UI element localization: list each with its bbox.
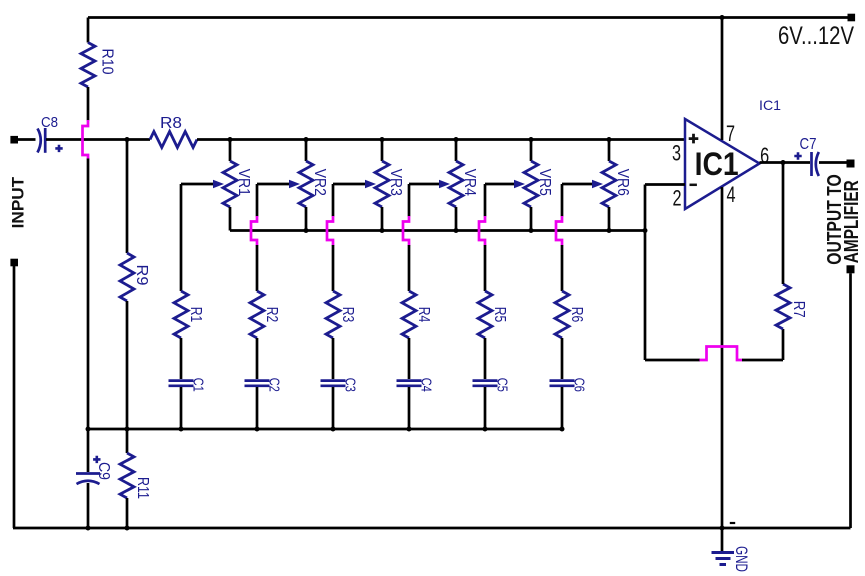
wire pin2 input — [645, 183, 685, 186]
potentiometer VR2 — [299, 161, 313, 207]
wire C6 to bias bus — [561, 387, 564, 429]
node R10/C9 bias junction — [86, 427, 91, 432]
node VR2 bottom junction — [304, 228, 309, 233]
wire pin2 to pot bus and feedback — [644, 185, 647, 361]
svg-text:VR3: VR3 — [387, 169, 404, 196]
wire R10 lower lead — [87, 87, 90, 121]
wire hop R4 chain over pot bus — [403, 216, 409, 246]
svg-text:R3: R3 — [339, 307, 356, 323]
node R9/R11 bias junction — [125, 427, 130, 432]
wire output ground drop — [849, 273, 852, 528]
node pot VR3 top junction — [380, 137, 385, 142]
resistor R11 — [126, 429, 129, 453]
wire C8 to node R9 — [46, 138, 127, 141]
capacitor C4 — [397, 379, 422, 382]
svg-text:GND: GND — [732, 546, 750, 572]
wire C5 to bias bus — [484, 387, 487, 429]
svg-text:4: 4 — [726, 183, 735, 208]
resistor R1 — [174, 291, 188, 338]
svg-text:2: 2 — [672, 186, 681, 211]
potentiometer VR4 — [449, 161, 463, 207]
svg-text:C1: C1 — [190, 378, 207, 392]
node pot VR2 top junction — [304, 137, 309, 142]
svg-text:R5: R5 — [491, 307, 508, 323]
svg-text:C6: C6 — [571, 378, 588, 392]
wire hop R5 chain over pot bus — [479, 216, 485, 246]
wire C3 to bias bus — [332, 387, 335, 429]
wire VR6 bottom lead — [608, 207, 611, 231]
wire feedback left segment — [645, 359, 700, 362]
wire VR5 wiper — [485, 183, 517, 186]
wire R4 to C4 — [408, 338, 411, 379]
node feedback junction on pot bus — [643, 228, 648, 233]
svg-text:IC1: IC1 — [759, 97, 781, 113]
wire VR5 bottom lead — [530, 207, 533, 231]
wire VR2 wiper — [257, 183, 292, 186]
wire R1 chain riser — [180, 184, 183, 291]
terminal output signal — [847, 160, 855, 168]
svg-text:3: 3 — [672, 141, 681, 166]
wire R5 chain riser upper — [484, 184, 487, 217]
node pot VR4 top junction — [454, 137, 459, 142]
terminal input signal — [10, 136, 18, 144]
potentiometer VR6 — [602, 161, 616, 207]
node C2 bias bus junction — [255, 427, 260, 432]
wire VR1 wiper — [181, 183, 216, 186]
node C1 bias bus junction — [179, 427, 184, 432]
node pin4 ground junction — [720, 526, 725, 531]
svg-text:R1: R1 — [187, 307, 204, 323]
capacitor C8 — [38, 129, 41, 153]
wire VR5 top lead — [530, 140, 533, 162]
svg-text:C5: C5 — [494, 378, 511, 392]
terminal output ground — [847, 265, 855, 273]
wire hop R6 chain over pot bus — [556, 216, 562, 246]
svg-text:6V...12V: 6V...12V — [778, 22, 854, 50]
wire VR2 bottom lead — [305, 207, 308, 231]
node supply/pin7 junction — [720, 15, 725, 20]
svg-text:R10: R10 — [99, 49, 116, 75]
node C6 bias bus junction — [560, 427, 565, 432]
svg-text:IC1: IC1 — [695, 146, 739, 182]
svg-text:C4: C4 — [418, 378, 435, 392]
op-amp minus input mark — [690, 184, 697, 187]
wire R4 chain riser upper — [408, 184, 411, 217]
resistor R8 — [150, 132, 197, 148]
node R11 ground junction — [125, 526, 130, 531]
wire top supply bus — [88, 16, 848, 19]
svg-text:C8: C8 — [41, 114, 58, 131]
wire R5 chain riser lower — [484, 245, 487, 291]
wire R3 to C3 — [332, 338, 335, 379]
wire C7 to output terminal — [819, 161, 847, 164]
wire R6 to C6 — [561, 338, 564, 379]
wire op-amp output — [760, 161, 811, 164]
potentiometer VR3 — [375, 161, 389, 207]
node output junction — [781, 160, 786, 165]
wire bias bus — [88, 428, 562, 431]
wire hop feedback over pin4 wire — [700, 347, 743, 361]
wire feedback right segment — [742, 359, 783, 362]
svg-text:R11: R11 — [134, 477, 151, 499]
node C3 bias bus junction — [331, 427, 336, 432]
svg-text:6: 6 — [760, 144, 769, 169]
capacitor C7 — [810, 152, 813, 176]
wire R3 chain riser upper — [332, 184, 335, 217]
ground symbol — [721, 528, 724, 551]
capacitor C9 — [87, 429, 90, 472]
resistor R7 — [782, 329, 785, 360]
wire R6 chain riser upper — [561, 184, 564, 217]
wire VR4 bottom lead — [455, 207, 458, 231]
svg-text:R2: R2 — [263, 307, 280, 323]
svg-text:R7: R7 — [790, 301, 807, 318]
svg-text:R6: R6 — [568, 307, 585, 323]
capacitor C2 — [245, 379, 270, 382]
svg-text:C7: C7 — [800, 136, 817, 153]
wire R5 to C5 — [484, 338, 487, 379]
wire R6 chain riser lower — [561, 245, 564, 291]
wire R1 to C1 — [180, 338, 183, 379]
potentiometer VR5 — [524, 161, 538, 207]
wire VR1 bottom lead — [229, 207, 232, 231]
svg-text:VR6: VR6 — [614, 169, 631, 196]
wire VR3 wiper — [333, 183, 368, 186]
resistor R10 — [87, 18, 90, 43]
wire C4 to bias bus — [408, 387, 411, 429]
svg-text:VR2: VR2 — [311, 169, 328, 196]
wire pin7 supply — [721, 18, 724, 141]
wire R2 chain riser lower — [256, 245, 259, 291]
wire R3 chain riser lower — [332, 245, 335, 291]
node VR4 bottom junction — [454, 228, 459, 233]
svg-text:VR1: VR1 — [235, 169, 252, 196]
minus mark near ground junction — [730, 522, 735, 524]
resistor R6 — [555, 291, 569, 338]
wire input ground drop — [13, 266, 16, 528]
wire R10 bottom to bias bus — [87, 159, 90, 430]
capacitor C3 — [321, 379, 346, 382]
wire C1 to bias bus — [180, 387, 183, 429]
resistor R3 — [326, 291, 340, 338]
resistor R9 — [126, 140, 129, 254]
wire input to C8 — [18, 138, 36, 141]
potentiometer VR1 — [223, 161, 237, 207]
terminal input ground — [10, 259, 18, 267]
wire pin4 to ground — [721, 187, 724, 528]
wire ground bus — [13, 527, 851, 530]
capacitor C6 — [550, 379, 575, 382]
node VR3 bottom junction — [380, 228, 385, 233]
op-amp U1 IC1 triangle — [685, 119, 760, 209]
wire VR2 top lead — [305, 140, 308, 162]
wire R2 to C2 — [256, 338, 259, 379]
resistor R4 — [402, 291, 416, 338]
node C8/R9/R8 junction — [125, 137, 130, 142]
node C5 bias bus junction — [483, 427, 488, 432]
wire C9 to ground bus — [87, 483, 90, 528]
svg-text:INPUT: INPUT — [8, 176, 27, 228]
wire VR4 top lead — [455, 140, 458, 162]
svg-text:AMPLIFIER: AMPLIFIER — [841, 180, 863, 263]
wire R2 chain riser upper — [256, 184, 259, 217]
wire R9 bottom to bias bus — [126, 301, 129, 429]
resistor R5 — [478, 291, 492, 338]
svg-text:R4: R4 — [415, 307, 432, 323]
wire node to R8 — [127, 138, 150, 141]
svg-text:R8: R8 — [160, 115, 182, 132]
node pot VR6 top junction — [607, 137, 612, 142]
wire R4 chain riser lower — [408, 245, 411, 291]
svg-text:C3: C3 — [342, 378, 359, 392]
wire R7 to output node — [782, 163, 785, 285]
wire pot bottom bus — [230, 229, 645, 232]
svg-text:VR5: VR5 — [536, 169, 553, 196]
wire signal bus R8 to op-amp pin3 — [197, 138, 685, 141]
node pot VR1 top junction — [228, 137, 233, 142]
wire hop R10 over input wire — [83, 120, 89, 160]
svg-text:VR4: VR4 — [461, 169, 478, 196]
wire C2 to bias bus — [256, 387, 259, 429]
capacitor C5 — [473, 379, 498, 382]
resistor R2 — [250, 291, 264, 338]
wire VR6 top lead — [608, 140, 611, 162]
wire VR3 top lead — [381, 140, 384, 162]
node VR6 bottom junction — [607, 228, 612, 233]
svg-text:C2: C2 — [266, 378, 283, 392]
wire VR3 bottom lead — [381, 207, 384, 231]
wire hop R2 chain over pot bus — [251, 216, 257, 246]
wire VR1 top lead — [229, 140, 232, 162]
node C9 ground junction — [86, 526, 91, 531]
node VR5 bottom junction — [529, 228, 534, 233]
wire VR4 wiper — [409, 183, 442, 186]
svg-text:R9: R9 — [133, 265, 150, 286]
node pot VR5 top junction — [529, 137, 534, 142]
capacitor C1 — [169, 379, 194, 382]
wire R11 to ground bus — [126, 498, 129, 528]
node C4 bias bus junction — [407, 427, 412, 432]
wire hop R3 chain over pot bus — [327, 216, 333, 246]
svg-text:7: 7 — [726, 122, 735, 147]
svg-text:C9: C9 — [95, 462, 112, 480]
terminal supply + — [848, 14, 856, 22]
wire VR6 wiper — [562, 183, 595, 186]
op-amp plus input mark — [689, 134, 699, 144]
